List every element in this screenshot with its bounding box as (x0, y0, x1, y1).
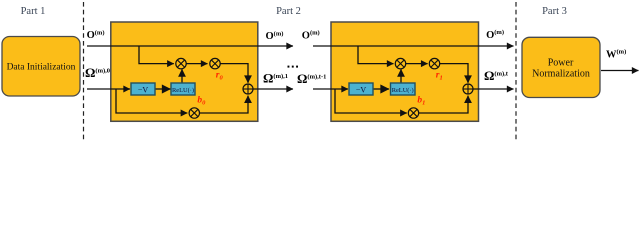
svg-text:Data Initialization: Data Initialization (7, 62, 76, 72)
svg-text:O(m): O(m) (302, 30, 320, 42)
svg-text:W(m): W(m) (606, 49, 626, 61)
svg-text:Ω(m),0: Ω(m),0 (85, 65, 110, 80)
svg-text:Part 3: Part 3 (542, 6, 567, 17)
svg-text:Part 2: Part 2 (276, 6, 301, 17)
svg-text:ReLU(·): ReLU(·) (392, 87, 414, 94)
svg-text:O(m): O(m) (266, 30, 284, 42)
svg-text:ReLU(·): ReLU(·) (172, 87, 194, 94)
svg-text:Power: Power (548, 58, 574, 69)
svg-text:Ω(m),t-1: Ω(m),t-1 (297, 71, 326, 86)
svg-text:Part 1: Part 1 (21, 6, 46, 17)
svg-text:−V: −V (356, 85, 367, 94)
svg-text:−V: −V (138, 85, 149, 94)
svg-text:Normalization: Normalization (532, 69, 590, 80)
svg-text:O(m): O(m) (87, 29, 105, 41)
svg-text:Ω(m),t: Ω(m),t (484, 68, 509, 83)
svg-text:Ω(m),1: Ω(m),1 (263, 71, 288, 86)
svg-text:O(m): O(m) (486, 29, 504, 41)
